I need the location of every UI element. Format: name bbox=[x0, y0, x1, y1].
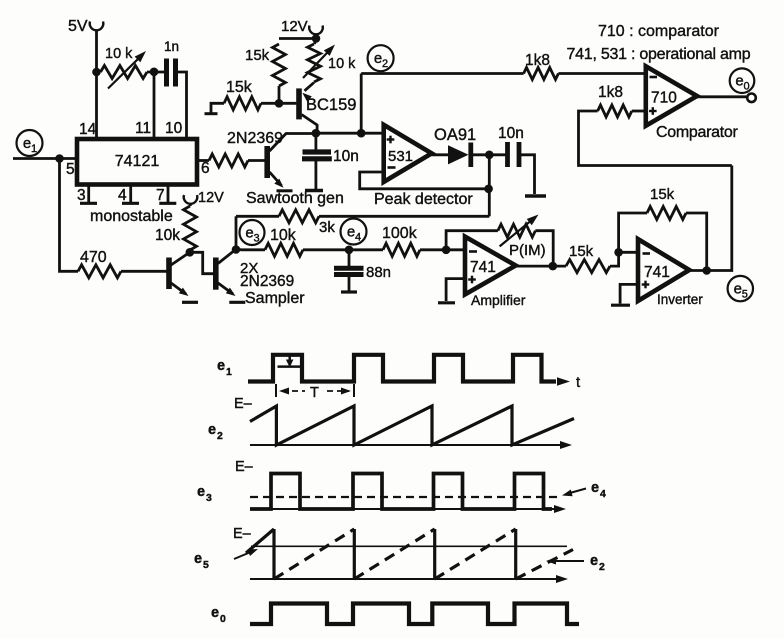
pin label 10 bbox=[165, 120, 183, 137]
svg-text:Sawtooth gen: Sawtooth gen bbox=[246, 190, 344, 207]
waveform label e2 bbox=[208, 422, 223, 442]
svg-text:1k8: 1k8 bbox=[525, 52, 550, 69]
waveform label E- (e5) bbox=[233, 526, 252, 542]
wire pot to cap node bbox=[147, 71, 165, 74]
wire pin6 bbox=[197, 159, 209, 162]
wire 531 plus input bbox=[361, 132, 384, 135]
svg-text:710: 710 bbox=[651, 90, 677, 107]
wire inverter plus to ground bbox=[611, 284, 638, 305]
terminal output pad bbox=[747, 94, 756, 103]
svg-text:1n: 1n bbox=[164, 39, 179, 54]
wire 1k8 to comparator minus bbox=[558, 72, 645, 75]
waveform label e0 bbox=[211, 605, 226, 625]
transistor Q1 BC159 (PNP current source) bbox=[299, 83, 356, 132]
node junction 12V bbox=[312, 34, 321, 43]
svg-text:5V: 5V bbox=[68, 18, 88, 35]
svg-text:10k: 10k bbox=[270, 227, 297, 244]
wire Q4 collector to e3 bbox=[236, 248, 241, 251]
node junction e1 branch bbox=[55, 154, 64, 163]
capacitor 10n (sawtooth) bbox=[302, 133, 359, 190]
wire diode to node bbox=[473, 153, 506, 156]
wire e2 to 1k8 bbox=[361, 72, 523, 75]
svg-text:15k: 15k bbox=[569, 243, 594, 260]
wire e1 node down to 470 bbox=[60, 159, 79, 272]
svg-text:4: 4 bbox=[118, 187, 127, 204]
node junction e4 bbox=[345, 246, 354, 255]
resistor 1k8 (comparator minus) bbox=[524, 52, 559, 80]
label Comparator bbox=[656, 124, 738, 141]
resistor 15k (BC159 base upper) bbox=[245, 44, 286, 103]
terminal e2 bbox=[368, 45, 394, 71]
label 2X 2N2369 Sampler bbox=[240, 260, 305, 307]
resistor (pin6 to Q2 base) bbox=[209, 154, 248, 167]
svg-text:1: 1 bbox=[31, 143, 37, 155]
resistor 1k8 (comparator plus) bbox=[598, 84, 632, 117]
svg-text:3: 3 bbox=[77, 187, 86, 204]
potentiometer P(IM) feedback bbox=[446, 215, 553, 267]
svg-text:1: 1 bbox=[226, 366, 232, 378]
svg-text:e: e bbox=[211, 605, 219, 621]
resistor 470 bbox=[78, 249, 121, 278]
pin label 6 bbox=[201, 160, 210, 177]
svg-text:100k: 100k bbox=[382, 225, 418, 242]
wire peak-det output down bbox=[488, 155, 491, 217]
pin 3 ground stub bbox=[77, 185, 97, 205]
node junction inverter output bbox=[702, 266, 711, 275]
node junction Q3 collector bbox=[186, 248, 195, 257]
node junction pin11/cap bbox=[150, 68, 159, 77]
terminal e5 bbox=[728, 276, 753, 301]
svg-text:741, 531 : operational amp: 741, 531 : operational amp bbox=[567, 46, 751, 63]
node junction amp output bbox=[549, 262, 558, 271]
terminal e3 bbox=[240, 220, 265, 245]
transistor Q4 2N2369 (sampler) bbox=[216, 250, 246, 302]
waveform e2 axis bbox=[250, 441, 572, 449]
waveform e2 sampled sawtooth (dashed) bbox=[246, 529, 573, 579]
dimension T bbox=[276, 384, 354, 401]
svg-text:P(IM): P(IM) bbox=[509, 242, 546, 259]
wire pin14 bbox=[95, 72, 98, 140]
wire amp plus to ground bbox=[438, 279, 465, 303]
svg-text:Sampler: Sampler bbox=[245, 290, 305, 307]
svg-text:2N2369: 2N2369 bbox=[240, 273, 294, 290]
pin label 11 bbox=[135, 120, 151, 137]
wire to Q2 base bbox=[248, 159, 265, 162]
wire 5V to node bbox=[95, 30, 98, 72]
svg-text:0: 0 bbox=[743, 81, 749, 93]
svg-text:t: t bbox=[576, 374, 581, 391]
resistor 15k (BC159 base left) with stub bbox=[205, 79, 297, 114]
svg-text:12V: 12V bbox=[281, 18, 308, 35]
svg-text:monostable: monostable bbox=[90, 208, 173, 225]
svg-text:11: 11 bbox=[135, 120, 151, 137]
label Peak detector bbox=[374, 191, 473, 208]
svg-text:e: e bbox=[23, 135, 31, 152]
svg-text:E–: E– bbox=[233, 526, 252, 542]
label Amplifier bbox=[471, 292, 526, 308]
svg-text:Amplifier: Amplifier bbox=[471, 292, 526, 308]
waveform e5 axis bbox=[250, 575, 568, 583]
resistor 3k bbox=[279, 210, 335, 236]
svg-text:470: 470 bbox=[80, 249, 107, 266]
svg-text:2: 2 bbox=[599, 561, 605, 573]
waveform e5 level line bbox=[251, 545, 567, 547]
wire e3 up to 3k line bbox=[235, 216, 238, 249]
svg-text:15k: 15k bbox=[650, 186, 675, 203]
wire 15k to inverter minus bbox=[610, 252, 638, 266]
svg-text:E–: E– bbox=[234, 396, 253, 412]
waveform e3 axis bbox=[250, 505, 566, 513]
svg-text:T: T bbox=[310, 385, 319, 401]
terminal e4 bbox=[341, 219, 367, 245]
node junction e3 bbox=[232, 245, 241, 254]
node junction amp minus bbox=[442, 246, 451, 255]
note 710 : comparator bbox=[598, 23, 720, 40]
svg-text:0: 0 bbox=[220, 613, 226, 625]
svg-text:10n: 10n bbox=[333, 148, 359, 165]
svg-text:14: 14 bbox=[79, 121, 97, 138]
svg-text:710 : comparator: 710 : comparator bbox=[598, 23, 720, 40]
waveform label E- (e3) bbox=[235, 459, 254, 475]
svg-text:Peak detector: Peak detector bbox=[374, 191, 473, 208]
svg-text:Inverter: Inverter bbox=[657, 292, 703, 307]
svg-text:e: e bbox=[197, 484, 205, 500]
svg-text:OA91: OA91 bbox=[434, 126, 476, 144]
waveform pointer e5 bbox=[234, 549, 258, 559]
node junction sawtooth output bbox=[312, 129, 321, 138]
svg-text:e: e bbox=[194, 551, 202, 567]
pulse width marker tau bbox=[278, 357, 301, 368]
pin label 14 bbox=[79, 121, 97, 138]
wire feedback to comparator bbox=[579, 111, 732, 166]
node junction peak-det feedback bbox=[484, 185, 493, 194]
power 12V supply (sawtooth) bbox=[281, 18, 323, 35]
wire comparator output bbox=[697, 95, 748, 98]
svg-text:7: 7 bbox=[156, 187, 165, 204]
capacitor 10n (peak hold) bbox=[498, 125, 524, 167]
label monostable bbox=[90, 208, 173, 225]
capacitor 88n (hold) bbox=[334, 250, 391, 292]
wire inverter output to e5 node bbox=[689, 166, 732, 271]
svg-text:10k: 10k bbox=[155, 227, 180, 244]
svg-text:12V: 12V bbox=[198, 190, 224, 206]
svg-text:10: 10 bbox=[165, 120, 183, 137]
svg-text:3: 3 bbox=[253, 233, 259, 245]
svg-text:10 k: 10 k bbox=[328, 56, 356, 72]
resistor 15k (inverter input) bbox=[566, 243, 610, 273]
transistor Q2 2N2369 (sawtooth discharge) bbox=[267, 134, 316, 191]
wire amp output bbox=[516, 265, 566, 268]
wire up to e2 line bbox=[360, 74, 363, 134]
wire cap to pin10 bbox=[177, 72, 187, 140]
svg-text:e: e bbox=[591, 480, 599, 496]
waveform label e5 bbox=[194, 551, 209, 571]
svg-text:5: 5 bbox=[742, 289, 748, 301]
svg-text:5: 5 bbox=[203, 559, 209, 571]
waveform label E- (e2) bbox=[234, 396, 253, 412]
wire 531 minus feedback bbox=[360, 172, 489, 189]
wire 3k left bbox=[236, 215, 279, 218]
node junction BC159 base bbox=[275, 99, 284, 108]
svg-text:e: e bbox=[735, 73, 743, 90]
svg-text:4: 4 bbox=[600, 488, 606, 500]
resistor 10k (sampler series) bbox=[241, 227, 304, 256]
wire 10k to e4 bbox=[303, 248, 349, 251]
terminal e0 bbox=[730, 68, 755, 93]
svg-text:e: e bbox=[217, 358, 225, 374]
waveform pointer e4 bbox=[562, 480, 606, 500]
terminal e1 bbox=[17, 130, 43, 156]
wire 12V to 15k bbox=[279, 37, 316, 40]
svg-text:e: e bbox=[245, 225, 253, 242]
wire cap to ground bbox=[521, 155, 546, 196]
svg-text:e: e bbox=[208, 422, 216, 438]
svg-text:741: 741 bbox=[470, 259, 496, 276]
wire 100k to amplifier bbox=[420, 248, 465, 251]
label 2N2369 (sawtooth) bbox=[227, 130, 283, 147]
op-amp U2 531 (peak detector) bbox=[384, 125, 432, 182]
wire pin11 bbox=[153, 72, 156, 140]
waveform e0 square wave bbox=[250, 604, 579, 625]
svg-text:10 k: 10 k bbox=[105, 46, 133, 62]
resistor 15k (inverter feedback) bbox=[619, 186, 707, 271]
wire Q3 collector to Q4 base bbox=[190, 252, 213, 273]
waveform label e1 bbox=[217, 358, 232, 378]
svg-text:4: 4 bbox=[355, 232, 361, 244]
svg-text:2: 2 bbox=[217, 430, 223, 442]
svg-text:e: e bbox=[347, 224, 355, 241]
pin label 5 bbox=[66, 161, 75, 178]
svg-text:5: 5 bbox=[66, 161, 75, 178]
op-amp U5 710 (comparator) bbox=[646, 66, 697, 126]
svg-text:3: 3 bbox=[206, 492, 212, 504]
node junction peak-det output bbox=[485, 151, 494, 160]
node junction inverter minus bbox=[614, 248, 623, 257]
svg-text:15k: 15k bbox=[245, 47, 270, 64]
diode D1 OA91 bbox=[434, 126, 476, 167]
wire 470 to Q3 base bbox=[121, 270, 167, 273]
svg-text:2: 2 bbox=[382, 58, 388, 70]
svg-text:88n: 88n bbox=[366, 264, 391, 281]
power 5V supply terminal bbox=[68, 18, 103, 35]
svg-text:6: 6 bbox=[201, 160, 210, 177]
resistor 10k (sampler collector) bbox=[155, 206, 197, 250]
waveform pointer e2 bbox=[546, 553, 605, 573]
wire input e1 to pin 5 bbox=[13, 157, 77, 160]
svg-text:BC159: BC159 bbox=[306, 96, 356, 114]
svg-text:Comparator: Comparator bbox=[656, 124, 738, 141]
svg-text:74121: 74121 bbox=[115, 153, 160, 170]
label Inverter bbox=[657, 292, 703, 307]
pin 4 ground stub bbox=[118, 185, 139, 205]
potentiometer 10k (monostable timing) bbox=[101, 46, 148, 89]
wire sawtooth node to e2 corner bbox=[316, 132, 361, 135]
waveform e3 square wave bbox=[250, 474, 552, 510]
node junction 5V/10k bbox=[92, 68, 101, 77]
svg-text:2N2369: 2N2369 bbox=[227, 130, 283, 147]
svg-text:531: 531 bbox=[388, 148, 413, 165]
svg-text:741: 741 bbox=[644, 264, 670, 281]
note 741, 531 : operational amp bbox=[567, 46, 751, 63]
svg-text:3k: 3k bbox=[319, 219, 335, 236]
svg-text:e: e bbox=[734, 281, 742, 298]
op-amp U4 741 (inverter) bbox=[638, 239, 689, 301]
resistor 100k bbox=[349, 225, 420, 256]
svg-text:e: e bbox=[374, 50, 382, 67]
wire 1k8 to comparator plus bbox=[632, 110, 646, 113]
svg-text:1k8: 1k8 bbox=[598, 84, 623, 101]
IC U1 74121 monostable bbox=[77, 139, 197, 185]
power 12V supply (sampler) bbox=[184, 190, 224, 206]
node junction 531 input bbox=[357, 129, 366, 138]
capacitor 1n (timing) bbox=[164, 39, 179, 87]
wire 531 output bbox=[432, 153, 448, 156]
waveform e4 dashed level bbox=[250, 496, 558, 498]
svg-text:e: e bbox=[590, 553, 598, 569]
potentiometer 10k (sawtooth current) bbox=[303, 39, 356, 83]
op-amp U3 741 (amplifier) bbox=[465, 237, 516, 295]
wire 3k to peak detector bbox=[319, 215, 489, 218]
svg-text:10n: 10n bbox=[498, 125, 524, 142]
transistor Q3 2N2369 (sampler driver) bbox=[169, 253, 198, 302]
waveform label e3 bbox=[197, 484, 212, 504]
waveform e2 sawtooth bbox=[250, 406, 574, 445]
pin 7 ground stub bbox=[156, 185, 176, 205]
svg-text:E–: E– bbox=[235, 459, 254, 475]
waveform e1 square wave bbox=[248, 355, 581, 391]
label Sawtooth gen bbox=[246, 190, 344, 207]
svg-text:15k: 15k bbox=[226, 79, 253, 96]
